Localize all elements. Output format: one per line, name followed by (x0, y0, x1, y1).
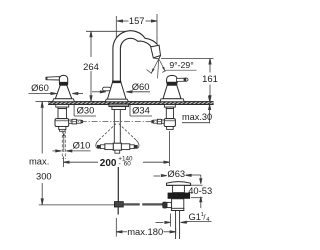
label D60 left (29, 92, 84, 94)
right handle escutcheon (160, 99, 184, 102)
angle annotation 9-29 (147, 59, 197, 79)
svg-text:60: 60 (124, 161, 132, 168)
svg-text:max.30: max.30 (182, 112, 212, 122)
spout aerator (151, 45, 161, 59)
spout base cone (107, 83, 126, 100)
right handle lever (177, 78, 189, 82)
svg-text:-: - (119, 161, 121, 168)
left valve body (55, 119, 69, 127)
svg-text:max.: max. (29, 155, 49, 166)
horizontal lever rod (123, 204, 139, 206)
right valve flange nut below counter (164, 105, 175, 108)
right hose swing dashed (119, 124, 137, 141)
svg-text:max.180: max.180 (127, 226, 163, 237)
dimension max.300 (36, 101, 49, 204)
countertop section band (48, 101, 214, 104)
left handle dark ring (59, 82, 68, 85)
svg-text:Ø63: Ø63 (167, 168, 185, 179)
svg-text:157: 157 (129, 15, 145, 26)
dimension max.180 (116, 218, 175, 237)
spout joint ring (112, 81, 121, 83)
svg-text:200: 200 (100, 158, 117, 169)
right handle dark ring (167, 82, 178, 85)
label D60 center (92, 91, 150, 93)
rod end pointer (156, 214, 171, 227)
left hose swing dashed (98, 124, 116, 141)
svg-text:9°-29°: 9°-29° (169, 60, 193, 70)
center shank flange below counter (109, 104, 129, 107)
left handle hub cap (59, 75, 67, 82)
left valve flange nut below counter (56, 105, 69, 108)
dimension 264 (86, 31, 126, 101)
drain flange (167, 182, 191, 186)
dimension 200 (64, 131, 170, 167)
drain locknut (168, 193, 191, 199)
center tee block (113, 143, 121, 150)
dimension 161 (161, 59, 214, 102)
svg-text:161: 161 (202, 73, 218, 84)
svg-text:Ø34: Ø34 (132, 105, 150, 116)
dimension 157 (116, 14, 157, 45)
rod junction block (114, 202, 123, 207)
svg-text:Ø10: Ø10 (73, 139, 91, 150)
pop-up knob on spout base (103, 87, 111, 91)
label G1 1/4 (181, 221, 212, 223)
spout escutcheon (105, 99, 128, 102)
right valve body (164, 119, 175, 127)
svg-text:4: 4 (206, 217, 209, 223)
left handle lever (46, 77, 60, 80)
label D30 (74, 105, 96, 116)
svg-text:264: 264 (83, 61, 99, 72)
ball housing (167, 202, 172, 207)
ball clevis at drain (163, 202, 167, 208)
right valve step (166, 107, 173, 109)
right handle hub cap (167, 75, 178, 82)
dimension max.30 (182, 95, 211, 123)
right handle cone (163, 85, 181, 99)
label D10 (53, 150, 91, 152)
svg-text:G1: G1 (189, 211, 202, 222)
max300 bottom reference line (39, 204, 115, 206)
left valve side outlet (69, 119, 83, 124)
drain tailpipe (176, 211, 180, 240)
svg-text:300: 300 (36, 170, 52, 181)
center supply tube (114, 110, 120, 144)
svg-text:Ø60: Ø60 (132, 81, 150, 92)
label D34 (130, 105, 152, 116)
spout gooseneck (113, 31, 158, 81)
left valve step (58, 107, 67, 109)
right valve side outlet (152, 119, 165, 124)
svg-text:40-53: 40-53 (188, 185, 212, 196)
tee right nut and nipple (121, 144, 137, 150)
dimension 40-53 (191, 175, 203, 208)
svg-text:Ø60: Ø60 (31, 82, 49, 93)
pop-up rod below tee (117, 167, 119, 202)
hose centerline (dash-dot) (70, 120, 165, 122)
dashed rod D10 (62, 131, 65, 160)
left valve shank (58, 109, 67, 119)
label D63 (154, 174, 201, 177)
left handle escutcheon (53, 99, 75, 102)
svg-text:Ø30: Ø30 (77, 105, 95, 116)
tee left nut and nipple (97, 144, 113, 150)
right valve tail (167, 127, 174, 130)
left handle cone (55, 85, 72, 99)
drain neck (173, 185, 185, 192)
drain body (172, 199, 184, 211)
right valve shank (166, 109, 173, 119)
left valve tail (59, 127, 66, 130)
